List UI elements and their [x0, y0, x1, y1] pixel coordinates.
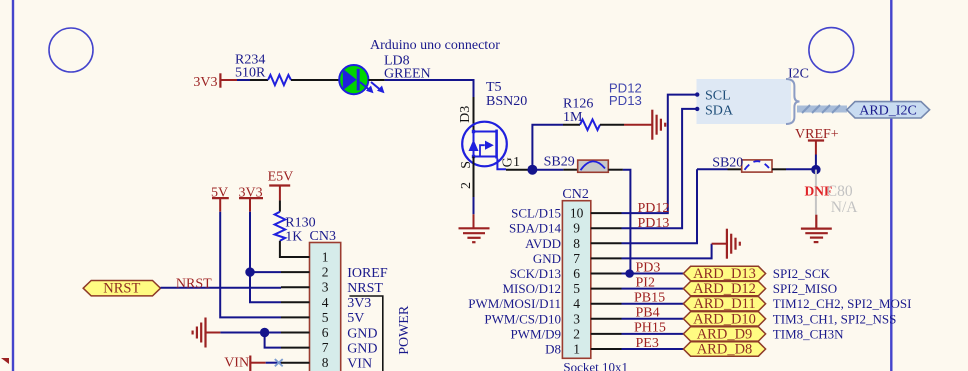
connector CN3 [310, 229, 341, 371]
svg-text:Socket 10x1: Socket 10x1 [563, 360, 628, 371]
svg-text:1: 1 [322, 250, 329, 265]
CN3 pin name labels [347, 266, 388, 371]
svg-text:POWER: POWER [397, 305, 412, 355]
ref circle left [49, 28, 93, 72]
svg-text:510R: 510R [235, 66, 266, 81]
power port E5V [268, 170, 294, 201]
LED LD8 [339, 54, 430, 95]
svg-text:TIM8_CH3N: TIM8_CH3N [773, 326, 844, 341]
svg-text:D8: D8 [545, 342, 561, 357]
connector CN2 [562, 187, 628, 371]
svg-text:BSN20: BSN20 [486, 94, 527, 109]
junction VREF node [811, 165, 820, 174]
svg-text:SCL/D15: SCL/D15 [511, 206, 561, 221]
CN2 pin name labels [468, 206, 561, 357]
port ARD_D11 [683, 296, 765, 312]
solder bridge SB29 [532, 155, 623, 173]
svg-text:CN2: CN2 [562, 187, 588, 202]
svg-text:ARD_I2C: ARD_I2C [859, 103, 917, 118]
wire SCL to CN2 pin10 [622, 95, 698, 214]
svg-text:PD13: PD13 [638, 216, 670, 231]
svg-text:3: 3 [322, 280, 329, 295]
svg-text:GND: GND [347, 341, 377, 356]
svg-text:N/A: N/A [831, 199, 859, 216]
sheet border left [12, 0, 14, 371]
ground right of R126 [624, 110, 665, 140]
transistor gate pin wire [506, 169, 532, 171]
net label PD3 [636, 261, 661, 276]
port ARD_D9 [683, 326, 765, 342]
wires CN2 pins 6-1 to ports [622, 274, 684, 350]
svg-text:2: 2 [573, 326, 580, 341]
signal name TIM3_CH1, SPI2_NSS [773, 311, 897, 326]
svg-text:6: 6 [573, 266, 580, 281]
net label NRST [176, 277, 212, 292]
power port 3V3 (CN3) [239, 186, 264, 212]
ground below T5 [459, 214, 490, 242]
svg-text:7: 7 [573, 251, 580, 266]
wire GND pin7 to ground [622, 244, 712, 259]
svg-text:1: 1 [513, 155, 520, 170]
svg-text:PWM/D9: PWM/D9 [510, 326, 561, 341]
svg-text:5: 5 [573, 281, 580, 296]
net label PB4 [636, 305, 660, 320]
svg-text:SDA/D14: SDA/D14 [509, 221, 562, 236]
svg-text:PB4: PB4 [636, 305, 660, 320]
port ARD_D8 [683, 342, 765, 358]
svg-text:NRST: NRST [176, 277, 212, 292]
power port VIN [224, 356, 266, 371]
svg-text:1K: 1K [285, 230, 302, 245]
wire gate node up to R126 [532, 125, 563, 170]
svg-text:E5V: E5V [268, 170, 294, 185]
junction GND node [260, 328, 269, 337]
net label PD13 [638, 216, 670, 231]
wire NRST to CN3 pin3 [161, 287, 282, 289]
svg-text:ARD_D9: ARD_D9 [697, 326, 753, 342]
svg-text:GND: GND [347, 326, 377, 341]
resistor R126 [563, 97, 624, 131]
svg-text:SCL: SCL [705, 89, 731, 104]
svg-text:AVDD: AVDD [525, 236, 561, 251]
junction gate node [527, 165, 537, 175]
svg-text:8: 8 [322, 355, 329, 370]
net label PE3 [636, 336, 659, 351]
svg-text:1M: 1M [563, 110, 583, 125]
port ARD_D12 [683, 281, 765, 297]
svg-text:PWM/CS/D10: PWM/CS/D10 [484, 311, 561, 326]
svg-text:NRST: NRST [103, 281, 140, 297]
wire 3V3 to R234 [237, 79, 250, 81]
ground right of pin7 [712, 229, 740, 259]
svg-text:PD12: PD12 [638, 201, 670, 216]
svg-text:9: 9 [573, 221, 580, 236]
title Arduino uno connector [370, 38, 500, 53]
svg-text:2: 2 [322, 265, 329, 280]
net label PB15 [634, 290, 665, 305]
svg-text:4: 4 [573, 296, 580, 311]
svg-text:TIM12_CH2, SPI2_MOSI: TIM12_CH2, SPI2_MOSI [773, 296, 912, 311]
CN2 pin numbers [570, 206, 584, 357]
port NRST [83, 281, 160, 297]
svg-text:CN3: CN3 [310, 229, 336, 244]
signal name SPI2_SCK [773, 266, 831, 281]
svg-text:ARD_D12: ARD_D12 [693, 281, 756, 297]
port ARD_D10 [683, 311, 765, 327]
svg-text:SB29: SB29 [544, 155, 575, 170]
svg-text:3V3: 3V3 [193, 75, 217, 90]
ground below C80 [801, 215, 832, 242]
svg-text:6: 6 [322, 325, 329, 340]
svg-text:VIN: VIN [224, 356, 249, 371]
wire VREF+ to node [815, 155, 817, 170]
svg-text:NRST: NRST [347, 281, 383, 296]
svg-text:4: 4 [322, 295, 329, 310]
svg-text:SPI2_MISO: SPI2_MISO [773, 281, 837, 296]
svg-text:ARD_D8: ARD_D8 [697, 342, 753, 358]
wire 5V to CN3 pin5 [220, 212, 281, 318]
CN2 pins (black) [591, 213, 622, 349]
svg-text:1: 1 [573, 342, 580, 357]
CN3 pins (black) [281, 257, 310, 363]
CN3 pin numbers [322, 250, 329, 371]
svg-text:SDA: SDA [705, 104, 734, 119]
wire LD8 to corner to T5 drain [368, 80, 473, 97]
border marker arrow [1, 358, 9, 364]
svg-text:PH15: PH15 [634, 320, 666, 335]
svg-text:PI2: PI2 [636, 275, 655, 290]
net label PI2 [636, 275, 655, 290]
port ARD_I2C [847, 102, 930, 119]
signal name SPI2_MISO [773, 281, 837, 296]
svg-text:D3: D3 [458, 106, 473, 123]
solder bridge SB20 [697, 156, 816, 172]
wire SDA to CN2 pin9 [622, 109, 698, 228]
ground left of CN3 pin6 [193, 318, 221, 348]
transistor T5 BSN20 [458, 80, 527, 189]
net label PD13 (sans) [609, 93, 642, 108]
svg-text:GND: GND [533, 251, 561, 266]
wire R130 to CN3 pin1 [280, 252, 281, 257]
resistor R234 [235, 53, 309, 86]
svg-text:ARD_D13: ARD_D13 [693, 266, 756, 282]
junction 3V3/IOREF [245, 267, 254, 276]
signal name TIM8_CH3N [773, 326, 844, 341]
svg-text:SCK/D13: SCK/D13 [510, 266, 561, 281]
POWER group bracket [349, 296, 412, 371]
svg-text:PD3: PD3 [636, 261, 661, 276]
svg-text:ARD_D11: ARD_D11 [693, 296, 755, 312]
net label PD12 [638, 201, 670, 216]
svg-text:IOREF: IOREF [347, 266, 388, 281]
net label PD12 (sans) [609, 80, 642, 95]
svg-text:I2C: I2C [788, 67, 809, 82]
svg-text:S: S [459, 161, 474, 169]
wire R234 to LD8 [309, 79, 339, 81]
signal name TIM12_CH2, SPI2_MOSI [773, 296, 912, 311]
svg-text:VREF+: VREF+ [795, 127, 839, 142]
junction pin6 node [625, 269, 634, 278]
svg-text:7: 7 [322, 340, 329, 355]
svg-text:C80: C80 [827, 183, 853, 200]
sheet border right [890, 0, 892, 371]
svg-text:MISO/D12: MISO/D12 [502, 281, 561, 296]
svg-text:3: 3 [573, 311, 580, 326]
power port VREF+ [795, 127, 839, 155]
svg-text:PD13: PD13 [609, 93, 642, 108]
svg-text:PB15: PB15 [634, 290, 665, 305]
svg-text:3V3: 3V3 [239, 186, 263, 201]
svg-text:5: 5 [322, 310, 329, 325]
power port 5V [211, 186, 229, 212]
svg-text:SPI2_SCK: SPI2_SCK [773, 266, 831, 281]
svg-text:ARD_D10: ARD_D10 [693, 311, 756, 327]
svg-text:3V3: 3V3 [347, 296, 371, 311]
wire T5 source to ground [473, 157, 475, 215]
svg-text:10: 10 [570, 206, 584, 221]
wire SB29 to CN2 pin6 junction [623, 170, 631, 273]
harness cable [797, 105, 847, 113]
svg-text:TIM3_CH1, SPI2_NSS: TIM3_CH1, SPI2_NSS [773, 311, 897, 326]
wire AVDD pin8 to SB20 [622, 169, 698, 243]
no-ERC marker [275, 359, 283, 366]
capacitor C80 (DNF, greyed) [805, 170, 859, 216]
svg-text:Arduino uno connector: Arduino uno connector [370, 38, 500, 53]
harness connector I2C [695, 67, 809, 125]
svg-text:8: 8 [573, 236, 580, 251]
wire 3V3 to CN3 pins 2,4 [250, 212, 281, 303]
resistor R130 [275, 200, 316, 252]
wire VIN to CN3 pin8 [266, 362, 281, 364]
svg-text:2: 2 [459, 182, 474, 189]
svg-text:5V: 5V [211, 186, 228, 201]
svg-text:SB20: SB20 [712, 156, 743, 171]
svg-text:T5: T5 [486, 80, 502, 95]
svg-text:VIN: VIN [347, 357, 372, 371]
power port 3V3 (left) [193, 73, 237, 90]
ref circle right [809, 28, 854, 73]
port ARD_D13 [683, 266, 765, 282]
svg-text:5V: 5V [347, 311, 364, 326]
svg-text:PWM/MOSI/D11: PWM/MOSI/D11 [468, 296, 561, 311]
svg-text:PE3: PE3 [636, 336, 659, 351]
net label PH15 [634, 320, 666, 335]
wire ground to CN3 pins 6,7 [220, 333, 281, 348]
